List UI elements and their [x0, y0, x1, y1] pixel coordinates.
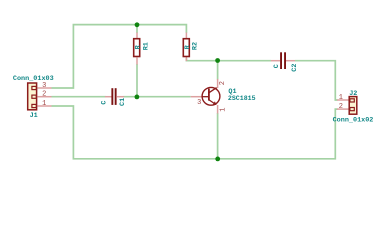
svg-text:2SC1815: 2SC1815 [228, 95, 256, 102]
svg-text:Conn_01x03: Conn_01x03 [13, 75, 54, 83]
svg-text:C2: C2 [291, 64, 299, 72]
svg-text:R2: R2 [191, 42, 199, 50]
svg-text:1: 1 [220, 108, 228, 112]
svg-text:J1: J1 [30, 112, 38, 120]
svg-text:J2: J2 [349, 90, 357, 98]
svg-text:2: 2 [339, 103, 343, 111]
svg-text:3: 3 [197, 99, 201, 107]
svg-text:C: C [273, 64, 281, 68]
svg-text:1: 1 [42, 100, 46, 108]
svg-text:2: 2 [219, 81, 227, 85]
svg-text:C: C [100, 101, 108, 105]
svg-text:Conn_01x02: Conn_01x02 [333, 116, 374, 124]
svg-text:C1: C1 [119, 98, 127, 106]
svg-text:R1: R1 [142, 42, 150, 50]
svg-text:1: 1 [339, 94, 343, 102]
svg-text:2: 2 [42, 91, 46, 99]
